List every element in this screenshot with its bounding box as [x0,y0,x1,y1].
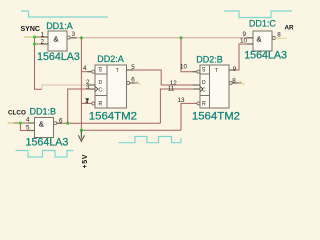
svg-text:8: 8 [277,32,281,39]
svg-text:D: D [99,80,103,86]
power arrow +5V [78,130,84,141]
svg-text:R: R [202,102,206,108]
wire DD1:A output long top wire [70,37,253,39]
svg-text:DD2:A: DD2:A [97,54,124,64]
wire vertical x=181 (S and R feeds of DD2:B) [181,38,197,72]
svg-text:1564LA3: 1564LA3 [37,51,80,63]
svg-text:&: & [39,120,44,129]
wire AR output stub (pale yellow) [275,37,286,39]
pin marker dot near R pin DD2:A [87,98,89,100]
junction dot CLCO [19,121,22,124]
svg-text:R: R [99,102,103,108]
svg-text:3: 3 [72,31,76,38]
svg-text:DD1:A: DD1:A [46,21,73,31]
svg-text:CLCO: CLCO [8,110,26,117]
svg-text:&: & [257,34,262,43]
wire pin dark segments overdraw [28,37,253,131]
power +5V rail [81,129,181,131]
svg-text:1564LA3: 1564LA3 [26,137,69,149]
waveform W3 (bottom-left clock) [16,151,74,158]
unconnected marker DD2:A pin 6 [137,81,141,85]
svg-text:10: 10 [180,64,188,71]
junction dot clock A [66,122,69,125]
wire pin2 stub DD1:A [35,43,49,45]
svg-text:D: D [202,80,206,86]
flip-flop DD2:B body [200,65,232,108]
wire pin1 stub DD1:A [35,36,49,38]
wire SYNC to D of DD2:A (vertical + jog) [35,37,43,89]
wire Q of DD2:A to D of DD2:B [127,70,201,85]
wire vertical x=81.4 (+5V column: S pin, R pin, rail, arrow) [80,38,82,139]
waveform W5 (bottom-middle pulses) [119,137,182,143]
svg-text:1564TM2: 1564TM2 [89,111,137,123]
svg-text:10: 10 [240,37,248,44]
junction dot at x=81.4 [80,36,83,39]
waveform W1 (top-left, step down) [21,11,108,17]
svg-text:4: 4 [83,65,87,72]
junction dot +5V [80,129,83,132]
svg-text:DD1:B: DD1:B [30,106,57,116]
junction dot SYNC A [33,35,36,38]
wire CLCO jog to pin 5 [20,123,34,131]
wire CLCO entry [14,122,35,124]
wire Qbar stub DD2:A (unconnected) [130,82,139,84]
svg-text:AR: AR [285,24,295,31]
svg-text:+5V: +5V [82,154,89,168]
svg-text:11: 11 [168,86,175,93]
svg-text:13: 13 [178,97,186,104]
svg-text:SYNC: SYNC [21,26,40,33]
wire CLCO entry tick (pale yellow) [8,122,14,124]
svg-text:T: T [116,68,119,74]
svg-text:T: T [215,68,218,74]
wire SYNC entry (pale yellow) [24,36,35,38]
svg-text:&: & [54,34,59,43]
wire Qbar stub DD2:B (unconnected) [232,82,242,84]
svg-text:DD2:B: DD2:B [196,54,223,64]
svg-text:1564TM2: 1564TM2 [192,111,240,123]
unconnected marker DD2:B pin 8 [240,81,244,85]
waveform W2 (top-right, notch) [224,11,292,18]
wire R stub DD2:B from +5V rail [181,103,197,130]
wire S stub DD2:A [81,71,91,73]
wire DD1:B output clock net [57,122,160,124]
svg-text:1: 1 [85,98,89,105]
wire R stub DD2:A [81,102,91,104]
svg-text:4: 4 [26,116,30,123]
svg-text:1564LA3: 1564LA3 [244,50,287,62]
NAND gate DD1:B body [35,118,57,138]
svg-text:DD1:C: DD1:C [249,18,277,28]
flip-flop DD2:A body [95,65,130,108]
wire clock to C of DD2:A [68,89,95,123]
svg-text:C: C [99,88,103,94]
junction dot SYNC B [33,42,36,45]
NAND gate DD1:C body [253,31,275,51]
NAND gate DD1:A body [48,31,70,51]
junction dot at x=181 [179,36,182,39]
wire clock to C of DD2:B [160,89,200,123]
wire Q of DD2:B to pin10 DD1:C [229,44,253,70]
